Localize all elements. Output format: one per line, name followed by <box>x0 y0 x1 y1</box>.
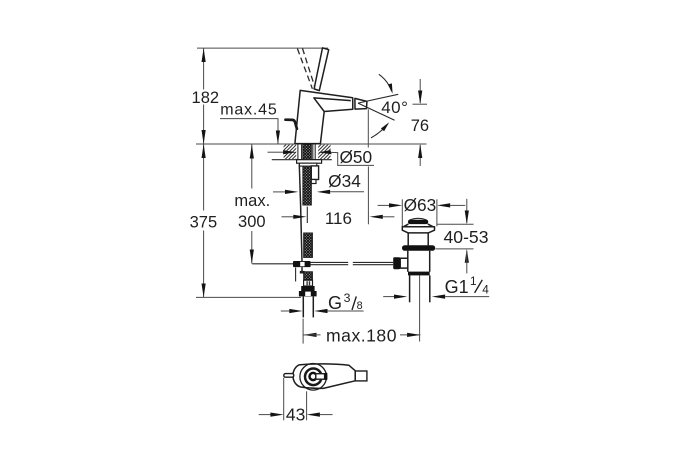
svg-text:116: 116 <box>325 209 352 228</box>
svg-text:43: 43 <box>286 405 305 425</box>
svg-text:300: 300 <box>238 213 266 231</box>
rod lower stub and foot <box>301 267 303 271</box>
drain centerline <box>419 275 421 341</box>
pop-up waste: extension lines for D63 <box>401 199 403 226</box>
dimension D63 <box>378 204 390 206</box>
svg-text:max.45: max.45 <box>220 102 277 119</box>
svg-text:G1: G1 <box>445 277 469 297</box>
knurled knob <box>393 257 400 269</box>
bottom view: handle body <box>293 364 355 389</box>
svg-text:max.: max. <box>234 192 270 210</box>
mounting nut <box>299 163 316 166</box>
cap flare <box>403 224 433 227</box>
dimension 182 <box>203 48 205 89</box>
svg-text:Ø34: Ø34 <box>328 171 361 191</box>
faucet body <box>295 90 353 143</box>
aerator tip <box>355 98 367 109</box>
svg-text:40-53: 40-53 <box>444 227 489 247</box>
clamp screw stub <box>295 268 297 282</box>
svg-text:40°: 40° <box>381 98 408 117</box>
pop-up rod knob at body left <box>286 120 297 129</box>
bottom view: lever bar <box>316 374 325 380</box>
svg-text:3: 3 <box>344 291 351 305</box>
dimension 76 <box>419 79 421 103</box>
dimension max.180 <box>303 333 316 337</box>
rod guide fitting <box>311 166 318 180</box>
flange <box>402 227 434 233</box>
svg-text:182: 182 <box>192 89 220 107</box>
svg-text:Ø50: Ø50 <box>339 147 372 167</box>
seal O-ring <box>402 245 435 251</box>
max.180 left extension <box>302 319 304 344</box>
dimension G3/8 <box>281 310 290 312</box>
supply tube <box>302 296 304 317</box>
arc arrow upper <box>379 74 392 91</box>
pop-up rod right segment <box>311 262 394 264</box>
dimension 43 <box>283 378 285 421</box>
rod clamp <box>293 261 311 267</box>
bottom view: spout stub <box>355 371 367 381</box>
svg-text:max.180: max.180 <box>326 325 397 345</box>
deck / counter top line <box>196 143 427 145</box>
svg-text:76: 76 <box>411 117 429 135</box>
bottom view: middle ring <box>305 369 322 386</box>
G3/8 nut <box>301 286 314 291</box>
dimension D50 leader <box>268 151 284 153</box>
spray angle lines 40deg <box>358 94 398 103</box>
side port <box>400 258 408 268</box>
dimension 40-53 <box>466 199 468 223</box>
svg-text:1: 1 <box>470 274 477 288</box>
neck <box>407 233 409 246</box>
arc arrow lower <box>371 125 387 138</box>
deck hatch right <box>318 145 330 160</box>
tailpipe <box>409 275 411 302</box>
deck hatch left <box>284 145 297 160</box>
svg-text:8: 8 <box>357 300 363 312</box>
coupling nut <box>408 272 430 276</box>
svg-text:4: 4 <box>482 282 489 296</box>
pipe break centerline <box>306 207 308 223</box>
waste body <box>407 251 409 272</box>
375 bottom extension line <box>196 296 301 298</box>
supply hose upper <box>304 233 313 257</box>
dimension 116 <box>282 216 294 218</box>
bottom view: inner hub <box>310 373 317 380</box>
116 right extension upper <box>367 109 369 147</box>
lever dashed (raised position) <box>297 48 315 88</box>
threaded shank <box>303 145 311 206</box>
dimension max.300 <box>251 144 253 189</box>
hose ferrule <box>304 280 313 286</box>
pop-up waste cap dome <box>410 218 427 220</box>
supply hose lower <box>304 272 313 280</box>
mounting washer <box>297 160 322 164</box>
svg-text:375: 375 <box>190 213 218 231</box>
lever solid <box>314 48 329 91</box>
shank outer tube below deck <box>297 144 299 159</box>
bottom view: left tab <box>284 374 294 378</box>
spout inner crease <box>314 98 351 112</box>
bottom view: outer circle <box>300 364 327 391</box>
dimension 375 <box>203 144 205 211</box>
116 right extension <box>367 167 369 225</box>
dimension D34 <box>273 191 285 193</box>
pop-up rod left segment <box>252 263 293 265</box>
top extent line <box>197 47 328 49</box>
svg-text:G: G <box>328 293 342 313</box>
vertical pull rod <box>299 165 302 262</box>
dimension max.45 <box>220 119 278 144</box>
dimension G1 1/4 <box>383 296 394 298</box>
svg-text:Ø63: Ø63 <box>404 195 437 215</box>
pop-up waste cap <box>408 220 428 224</box>
deck bottom line <box>272 159 332 161</box>
